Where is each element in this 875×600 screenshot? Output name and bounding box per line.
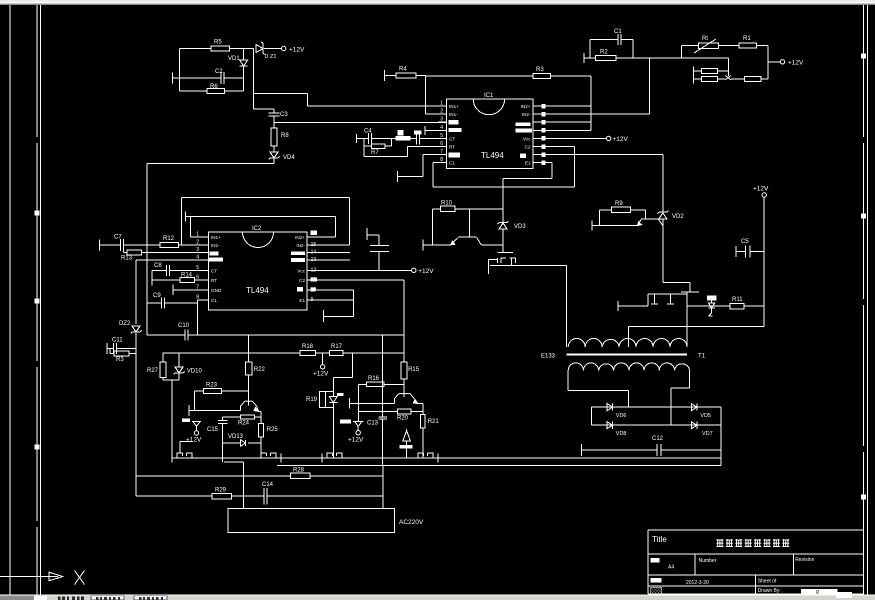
resistor R23: [204, 389, 222, 394]
svg-text:R11: R11: [732, 297, 743, 303]
svg-text:VD4: VD4: [283, 155, 295, 161]
left supply rail: [135, 260, 137, 324]
capacitor C12: [656, 444, 658, 456]
svg-text:IN2-: IN2-: [296, 243, 305, 248]
transistor Q-a: [468, 209, 470, 237]
wire pot feed down: [650, 57, 729, 59]
wire secondary left lead: [567, 371, 569, 391]
wire IC2 pin11 down: [312, 279, 404, 281]
wire E net down: [502, 187, 504, 223]
wire up to Rt row: [681, 46, 683, 58]
wire R4 row: [385, 75, 396, 77]
svg-text:R3: R3: [116, 357, 124, 363]
zener VD3: [499, 223, 507, 229]
terminal bar R14 left: [151, 274, 153, 285]
terminal bar C2 left: [171, 73, 173, 84]
resistor R27: [162, 353, 164, 362]
mosfet V2 body: [648, 293, 687, 295]
diode VD1: [243, 49, 245, 61]
svg-text:R27: R27: [147, 368, 159, 374]
IC1 right pin stubs and squares: [533, 105, 546, 107]
svg-text:+12V: +12V: [613, 136, 629, 143]
title block outer: [648, 529, 864, 531]
left long vertical rail: [146, 163, 148, 335]
grip on right frame line: [861, 495, 866, 500]
svg-text:GND: GND: [211, 288, 222, 293]
resistor R3b: [109, 349, 111, 354]
resistor R28: [291, 473, 310, 478]
wire R10 top row: [433, 208, 441, 210]
wire Rt to R1: [718, 45, 739, 47]
mosfet V2 gate bar: [681, 291, 699, 293]
diode VD8: [607, 422, 613, 429]
wire bridge mid row: [591, 424, 721, 426]
resistor R1: [739, 43, 757, 48]
wire collector to VD3 line: [481, 244, 503, 246]
wire to R12: [124, 244, 160, 246]
ucs icon X glyph: [75, 571, 85, 585]
wire to C3: [253, 108, 274, 110]
grip on right frame line: [861, 54, 866, 59]
svg-text:IN1-: IN1-: [211, 243, 220, 248]
svg-text:IN1-: IN1-: [449, 112, 458, 117]
zener VD10: [178, 353, 180, 367]
svg-text:R9: R9: [615, 201, 623, 207]
wire Q2 base row: [349, 402, 394, 404]
long vertical C13/AC net: [382, 335, 384, 417]
AC220V box: [228, 508, 394, 532]
svg-text:VD3: VD3: [514, 224, 526, 230]
terminal bar Q-a emitter: [422, 239, 424, 250]
resistor filled block: [395, 136, 410, 141]
drawing frame right inner line (selected, with gaps): [863, 5, 865, 137]
wire R9 right to base: [631, 209, 646, 211]
capacitor C15: [222, 417, 224, 420]
svg-text:C1: C1: [614, 29, 622, 35]
capacitor C14: [263, 488, 265, 505]
wire secondary right lead: [689, 371, 691, 389]
diode VD5: [691, 404, 697, 411]
svg-text:D Z1: D Z1: [265, 54, 277, 60]
resistor R22: [248, 353, 250, 362]
transformer T1 secondary winding: [568, 363, 689, 371]
snubber diode: [711, 300, 713, 303]
svg-text:R12: R12: [163, 236, 175, 242]
grip on left frame line: [35, 299, 40, 304]
terminal stub below IC2: [323, 310, 325, 322]
IC1 pin3 label block: [448, 120, 458, 125]
wire IC2 row3 right: [312, 252, 350, 254]
svg-text:R25: R25: [267, 427, 279, 433]
svg-text:+12V: +12V: [186, 437, 202, 444]
svg-text:6: 6: [440, 141, 443, 147]
svg-text:R21: R21: [428, 419, 440, 425]
zener VD2: [659, 213, 667, 219]
+12V block Q2 stage: [340, 420, 351, 424]
diode VD13: [241, 440, 246, 446]
diode VD6: [607, 404, 613, 411]
svg-text:R7: R7: [371, 150, 379, 156]
capacitor C4: [368, 133, 370, 144]
IC1 pin13 label block: [516, 128, 532, 132]
svg-text:+12V: +12V: [753, 186, 769, 193]
wire AC right connector: [382, 466, 384, 509]
svg-text:R29: R29: [215, 488, 227, 494]
wire emitter row: [423, 244, 451, 246]
wire C2 row: [172, 77, 221, 79]
wire pin7 right long: [546, 154, 663, 156]
svg-text:VD2: VD2: [672, 214, 684, 220]
wire center tap long: [629, 325, 765, 327]
svg-text:R6: R6: [210, 84, 218, 90]
wire RT detour: [363, 146, 365, 156]
wire pin8/C9 net: [198, 299, 201, 301]
terminal bar Q-b emitter: [591, 221, 593, 231]
wire R22 bottom to Q1 collector: [248, 375, 250, 405]
svg-text:R13: R13: [121, 256, 133, 262]
svg-text:4: 4: [440, 125, 443, 131]
wire C10net down to R22: [248, 335, 250, 353]
svg-text:IN1+: IN1+: [211, 235, 221, 240]
svg-text:IC2: IC2: [252, 226, 262, 232]
svg-text:DZ2: DZ2: [119, 321, 131, 327]
resistor R12: [160, 242, 179, 247]
capacitor C7: [120, 239, 122, 251]
wire R17 row to R15: [343, 352, 404, 354]
zener pair R19: [323, 391, 334, 393]
wire R11 row: [687, 305, 730, 307]
terminal +12V top-left: [282, 46, 286, 50]
wire bridge top row: [591, 406, 721, 408]
IC1 left pin stubs and numbers: [438, 105, 446, 107]
svg-text:IN2+: IN2+: [521, 104, 531, 109]
resistor R8: [273, 123, 275, 129]
ucs icon axis line: [0, 576, 49, 578]
transformer T1 primary winding: [568, 339, 687, 348]
svg-text:IC1: IC1: [484, 93, 494, 99]
size block: [651, 558, 660, 563]
resistor R16: [367, 382, 385, 386]
label block 2: [414, 130, 422, 134]
terminal bar C7 left: [99, 239, 101, 250]
date block: [651, 578, 662, 583]
wire R14 row: [152, 279, 180, 281]
resistor R9: [612, 207, 631, 213]
capacitor C1 branch: [589, 39, 591, 58]
grip on left frame line: [35, 211, 40, 216]
wire R12 to pin2: [179, 244, 201, 246]
wire IC2 Vcc right: [312, 269, 412, 271]
terminal bar Q1 base: [188, 405, 190, 416]
title block row line 2: [648, 574, 864, 576]
wire R10 left down: [432, 209, 434, 245]
terminal bar C11 left: [106, 343, 108, 354]
wire R28 rail: [136, 475, 291, 477]
diode VD7: [691, 422, 697, 429]
terminal +12V at IC2: [412, 268, 416, 272]
wire R16 row: [359, 383, 367, 385]
svg-text:TL494: TL494: [481, 151, 504, 160]
wire pin3 right: [546, 121, 591, 123]
title chinese glyphs: [717, 539, 724, 547]
capacitor C6 hang stub: [366, 228, 368, 240]
svg-text:C2: C2: [299, 278, 305, 283]
terminal +12V mid: [322, 353, 324, 365]
wire pin4 row to left rail: [136, 259, 201, 261]
wire R19 bottom to rail: [332, 407, 334, 458]
svg-text:R16: R16: [368, 376, 380, 382]
svg-text:C4: C4: [364, 129, 372, 135]
terminal bar V2 left: [617, 301, 619, 311]
capacitor C9: [161, 298, 163, 309]
resistor R2: [596, 56, 617, 61]
wire R2 row: [584, 57, 596, 59]
feedback loop inner: [185, 212, 187, 222]
wire R23 row: [195, 390, 204, 392]
resistor R29: [212, 494, 231, 499]
layout tab 2: [134, 596, 167, 600]
svg-text:+12V: +12V: [418, 268, 434, 275]
wire C10 row: [147, 334, 185, 336]
drawing frame right outer line: [867, 5, 869, 595]
diode P net: [406, 429, 408, 431]
wire VD4 to left rail: [273, 158, 275, 163]
resistor R6: [207, 89, 225, 94]
wire Vcc right: [546, 137, 607, 139]
svg-text:IN1+: IN1+: [449, 104, 459, 109]
wire R27/VD10 bottoms: [162, 378, 164, 380]
title block verticals: [694, 554, 696, 575]
resistor pot lower: [701, 77, 717, 82]
IC2 pin4 label block: [209, 258, 224, 262]
svg-text:C7: C7: [114, 235, 122, 241]
wire pin2 right to node A: [546, 113, 650, 115]
wire C8 row: [152, 269, 166, 271]
resistor pot right: [745, 77, 762, 82]
capacitor C10: [184, 330, 186, 341]
svg-text:Revision: Revision: [795, 557, 814, 563]
svg-text:T1: T1: [698, 354, 706, 360]
wire to pin1 of IC1: [253, 92, 307, 94]
bridge right edge: [720, 407, 722, 466]
svg-text:+12V: +12V: [313, 371, 329, 378]
wire VD13 row: [223, 442, 241, 444]
svg-text:E1: E1: [525, 161, 531, 166]
svg-text:2: 2: [440, 109, 443, 115]
svg-text:+12V: +12V: [289, 47, 305, 54]
label block P: [399, 445, 412, 449]
wire VD3 down to gate: [502, 229, 504, 252]
hatched box: [651, 587, 662, 593]
wire R6 row: [180, 90, 207, 92]
terminal bars pot left: [692, 67, 694, 76]
wire pin7 net down: [662, 155, 664, 212]
svg-text:C12: C12: [652, 436, 664, 442]
mosfet V1 body: [496, 258, 498, 263]
svg-text:CT: CT: [211, 268, 217, 273]
terminal bar GND: [172, 285, 174, 296]
svg-text:3: 3: [440, 117, 443, 123]
terminal bar pin7 net: [397, 171, 399, 182]
svg-text:R18: R18: [302, 344, 314, 350]
svg-text:Rt: Rt: [702, 36, 708, 42]
wire C4 to R7 net: [372, 137, 392, 139]
IC1 pin4 label block: [448, 128, 461, 132]
wire VD2 down: [662, 219, 664, 283]
+12V rail: [763, 197, 765, 326]
status right block: [836, 592, 852, 598]
wire R20 row: [359, 411, 398, 413]
svg-text:VD5: VD5: [700, 413, 711, 419]
wire C12 row: [581, 449, 656, 451]
ucs icon arrow: [49, 572, 63, 581]
svg-text:C13: C13: [367, 421, 379, 427]
wire C7 row: [100, 244, 121, 246]
wire to CT pin: [420, 137, 439, 139]
terminal bar C12 left: [580, 444, 582, 456]
svg-text:8: 8: [440, 157, 443, 163]
IC1 pin10 label block: [520, 154, 526, 159]
svg-text:R19: R19: [306, 397, 318, 403]
zener to +12V Q2: [353, 420, 364, 422]
terminal +12V right cluster: [768, 61, 780, 63]
status bar: [0, 595, 875, 600]
svg-text:TL494: TL494: [246, 286, 269, 295]
snubber label block: [707, 295, 717, 300]
wire CT row: [356, 137, 368, 139]
svg-text:R24: R24: [238, 421, 250, 427]
svg-text:R10: R10: [441, 201, 453, 207]
svg-text:C2: C2: [525, 145, 531, 150]
+12V block Q1 stage: [182, 418, 190, 421]
wire C9 row: [147, 302, 162, 304]
wire C5 row: [736, 251, 745, 253]
terminal bar Q2 base: [348, 398, 350, 409]
transistor Q1: [240, 405, 242, 410]
wire IC2 row4 right: [312, 259, 350, 261]
svg-text:C3: C3: [280, 112, 288, 118]
resistor R7 parallel: [363, 138, 365, 146]
wire R29/C14 rail: [136, 495, 212, 497]
wire R25 bottom to rail: [260, 437, 262, 458]
drawn-by white block: [801, 589, 837, 594]
transformer core: [566, 354, 687, 356]
mosfet VT4: [418, 453, 424, 458]
svg-text:C9: C9: [153, 293, 161, 299]
svg-text:Title: Title: [652, 535, 667, 544]
op-amp IC2 TL494 body: [209, 232, 308, 310]
svg-text:VD1: VD1: [228, 56, 240, 62]
wire Q1 emitter node: [259, 411, 261, 413]
wire E1 routing: [546, 162, 552, 164]
svg-text:+12V: +12V: [788, 60, 804, 67]
capacitor C2: [220, 72, 222, 84]
wire pin1 right: [546, 105, 591, 107]
wire IC2 row7/8 routing: [312, 289, 353, 291]
model tab text: [58, 597, 84, 600]
svg-text:E133: E133: [541, 354, 556, 360]
capacitor C3: [269, 112, 280, 114]
zener VD4: [273, 146, 275, 152]
wire pin3 row from C3: [273, 116, 275, 123]
wire emitter row Q-b: [592, 225, 638, 227]
capacitor C5: [744, 246, 746, 258]
wire C2pin down: [573, 147, 575, 188]
label block: [398, 130, 404, 135]
svg-text:VD13: VD13: [228, 434, 244, 440]
terminal bar pin4: [424, 126, 426, 135]
resistor R25: [260, 417, 262, 424]
wire R16 left down: [358, 384, 360, 421]
wire R24 row: [223, 416, 241, 418]
mosfet VT2: [261, 453, 267, 458]
wire top row to R3: [425, 75, 533, 77]
svg-text:Vcc: Vcc: [523, 136, 531, 141]
svg-text:RT: RT: [449, 145, 455, 150]
mosfet V1 gate bar: [498, 251, 513, 253]
capacitor C6 top lead: [367, 234, 379, 236]
svg-text:2012-3-20: 2012-3-20: [686, 580, 709, 586]
svg-text:C2: C2: [215, 69, 223, 75]
mosfet V1 drain stub: [487, 260, 489, 274]
svg-text:R20: R20: [397, 416, 409, 422]
capacitor C13: [378, 416, 386, 418]
svg-text:VD7: VD7: [702, 431, 713, 437]
wiper cross: [725, 76, 731, 80]
wire ground rail upper: [172, 457, 721, 459]
svg-text:C5: C5: [741, 239, 749, 245]
resistor R18: [300, 350, 316, 355]
wire Q2 emitter to R21: [418, 403, 423, 405]
left paper edge line: [9, 5, 11, 595]
svg-text:C1: C1: [449, 161, 455, 166]
svg-text:Vcc: Vcc: [297, 268, 305, 273]
feedback loop outer: [182, 197, 350, 199]
svg-text:R8: R8: [281, 133, 289, 139]
resistor R5: [211, 46, 230, 51]
resistor R4: [396, 73, 416, 78]
title block row line 1: [648, 553, 864, 555]
svg-text:R4: R4: [399, 67, 407, 73]
svg-text:g: g: [816, 589, 819, 595]
wire left branch down: [179, 49, 181, 92]
thermistor Rt: [698, 43, 718, 49]
transistor Q2: [394, 398, 396, 403]
grip on right frame line: [861, 214, 866, 219]
zener DZ2: [132, 326, 140, 332]
svg-text:R28: R28: [293, 468, 305, 474]
resistor pot upper: [701, 69, 717, 74]
resistor R21: [421, 415, 426, 429]
svg-text:5: 5: [440, 133, 443, 139]
terminal +12V at IC1: [607, 136, 611, 140]
svg-text:IN2+: IN2+: [295, 235, 305, 240]
wire ground rail lower: [277, 465, 721, 467]
grip on left frame line: [35, 445, 40, 450]
bridge left edge: [590, 407, 592, 425]
capacitor series: [411, 137, 417, 139]
IC1 pin14 label block: [516, 122, 531, 126]
svg-text:AC220V: AC220V: [399, 519, 424, 526]
wire pin4 right: [546, 129, 591, 131]
svg-text:R5: R5: [214, 40, 222, 46]
svg-text:R2: R2: [600, 50, 608, 56]
wire R1 right down: [757, 45, 768, 47]
resistor R19: [320, 392, 326, 408]
title block row line 3: [648, 585, 864, 587]
svg-text:C15: C15: [207, 427, 219, 433]
resistor R3: [533, 73, 551, 78]
